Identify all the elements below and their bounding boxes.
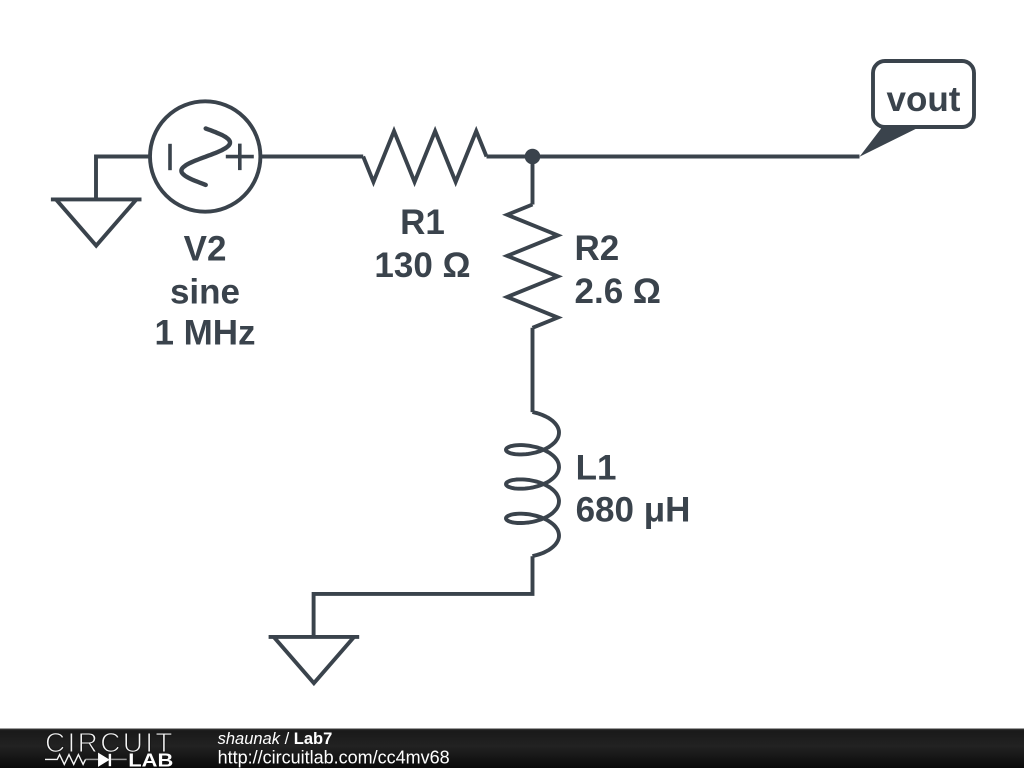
svg-text:LAB: LAB — [128, 750, 173, 768]
svg-text:V2: V2 — [184, 230, 227, 269]
svg-text:sine: sine — [170, 272, 240, 311]
svg-text:R1: R1 — [400, 203, 445, 242]
svg-text:L1: L1 — [576, 449, 617, 488]
svg-text:http://circuitlab.com/cc4mv68: http://circuitlab.com/cc4mv68 — [218, 748, 450, 768]
svg-text:680 μH: 680 μH — [576, 490, 691, 529]
svg-text:1 MHz: 1 MHz — [154, 313, 255, 352]
svg-text:vout: vout — [887, 80, 961, 119]
svg-text:2.6 Ω: 2.6 Ω — [575, 272, 661, 311]
svg-text:130 Ω: 130 Ω — [374, 246, 470, 285]
svg-text:R2: R2 — [575, 229, 620, 268]
svg-text:shaunak / Lab7: shaunak / Lab7 — [218, 730, 333, 748]
